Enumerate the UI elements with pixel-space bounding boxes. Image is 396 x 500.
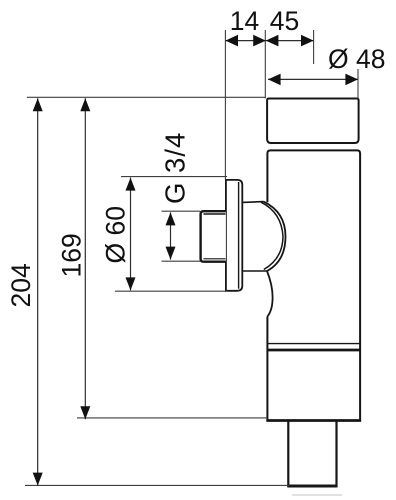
dimension D48 left arrow [268, 74, 281, 86]
wall flange (side view) [226, 180, 242, 291]
extension line: flange bottom (for D60) [115, 290, 228, 292]
dimension D48 right arrow [345, 74, 358, 86]
G 3/4 thread connector [201, 211, 226, 262]
svg-text:Ø 60: Ø 60 [101, 206, 131, 263]
svg-text:Ø 48: Ø 48 [328, 44, 385, 74]
dimension G3/4 top arrow [166, 212, 176, 225]
dimension 204 top arrow [33, 98, 43, 111]
body left edge S-curve below dome [267, 271, 273, 317]
dimension 169 line [84, 98, 86, 419]
dimension 204 bottom arrow [33, 473, 43, 486]
svg-text:45: 45 [270, 6, 299, 36]
body bottom thick edge [266, 419, 361, 422]
body joint line thin [267, 343, 360, 345]
svg-text:169: 169 [57, 233, 87, 277]
svg-text:204: 204 [6, 263, 36, 307]
extension line: flange top (for D60) [121, 176, 227, 178]
dimension 169 top arrow [80, 98, 90, 111]
dimension D48 line [268, 78, 358, 80]
outlet shadow line [292, 494, 342, 496]
extension line: body left edge (for 14/45) [264, 30, 266, 99]
extension line: wall plane (for 14) [224, 30, 226, 180]
dome top attachment line [242, 201, 263, 204]
dimension 14-45 line [225, 40, 313, 42]
dimension 169 bottom arrow [80, 406, 90, 419]
extension line: bottom of outlet (for 204) [25, 484, 289, 486]
dimension D60 top arrow [126, 178, 136, 191]
valve top cap [267, 99, 359, 144]
extension line: bottom of body (for 169) [77, 417, 267, 419]
dimension G3/4 line [170, 212, 172, 259]
dome inner curve [261, 202, 283, 269]
extension line: thread bottom (for G3/4) [162, 260, 201, 262]
extension line: pipe axis (for 45) [313, 30, 315, 64]
svg-text:G 3/4: G 3/4 [160, 132, 191, 204]
dome outer curve [264, 202, 286, 271]
dimension 45 right arrow [301, 35, 314, 47]
dimension D60 bottom arrow [126, 277, 136, 290]
outlet bottom thick edge [287, 485, 337, 488]
flange inner face line [238, 182, 240, 289]
svg-text:14: 14 [230, 6, 259, 36]
valve main body [267, 150, 360, 420]
dimension 204 line [37, 98, 39, 485]
extension line: body right edge (for D48) [357, 69, 359, 99]
dimension 14 left arrow [225, 35, 238, 47]
dimension D60 line [130, 178, 132, 291]
extension line: top of body (for 204/169) [27, 96, 266, 98]
thread chamfer line top [204, 213, 226, 215]
extension line: thread top (for G3/4) [162, 210, 201, 212]
thread chamfer line bottom [204, 258, 226, 260]
body joint line thick [267, 349, 360, 352]
dimension 45 left arrow [266, 35, 279, 47]
bottom outlet pipe [288, 422, 336, 486]
dimension G3/4 bottom arrow [166, 247, 176, 260]
dimension 14 right arrow [253, 35, 266, 47]
dome bottom attachment line [242, 270, 267, 272]
